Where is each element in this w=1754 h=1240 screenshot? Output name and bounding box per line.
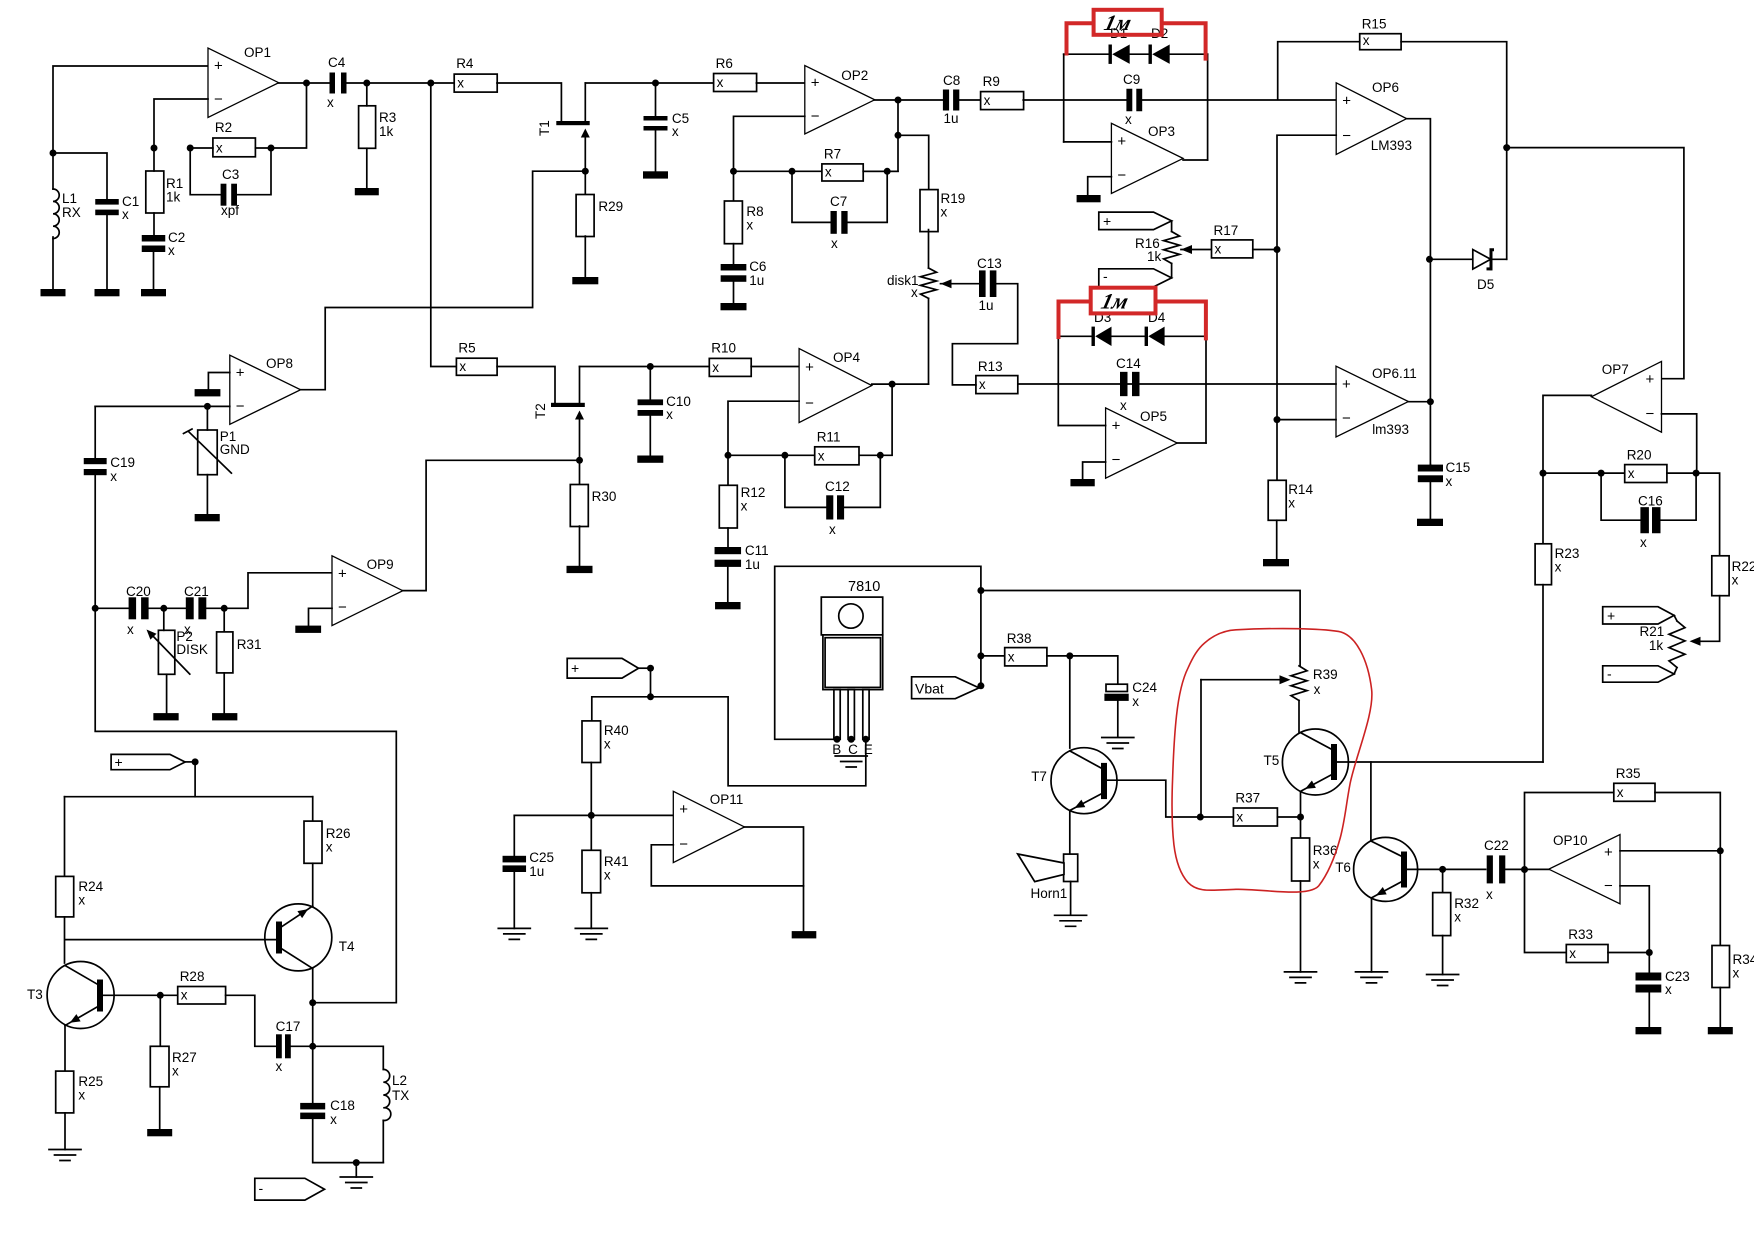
resistor R33 [1566, 927, 1608, 963]
wire [206, 573, 332, 609]
wire [1337, 761, 1543, 763]
svg-text:C16: C16 [1638, 494, 1663, 509]
wire [312, 797, 314, 821]
wire [1058, 335, 1091, 337]
op-amp OP4 [799, 349, 872, 423]
resistor R23 [1535, 544, 1579, 585]
wire [1300, 817, 1302, 838]
wire [159, 1087, 161, 1129]
resistor R36 [1292, 838, 1338, 881]
wire [1200, 816, 1233, 818]
wire [792, 171, 831, 222]
capacitor C23 [1636, 969, 1690, 997]
svg-text:x: x [327, 95, 334, 110]
resistor R7 [822, 147, 863, 182]
potentiometer P2 [147, 629, 208, 674]
svg-text:−: − [1342, 410, 1351, 427]
svg-text:x: x [979, 377, 986, 392]
wire [1370, 762, 1372, 841]
svg-text:OP8: OP8 [266, 356, 293, 371]
capacitor C20 [126, 584, 151, 637]
capacitor C1 [95, 194, 139, 222]
junction [1598, 470, 1605, 477]
resistor R34 [1712, 946, 1754, 988]
wire [1442, 936, 1444, 975]
wire [1694, 596, 1720, 642]
svg-text:GND: GND [220, 442, 250, 457]
svg-text:x: x [741, 499, 748, 514]
wire [64, 1026, 66, 1072]
svg-text:1u: 1u [944, 111, 959, 126]
transistor T5 [1264, 729, 1349, 795]
ground [1263, 559, 1289, 566]
op-amp OP11 [673, 791, 744, 862]
junction [363, 80, 370, 87]
wire [53, 66, 208, 153]
diode D4 [1145, 310, 1166, 346]
flag + (supply, TX stage) [111, 754, 185, 769]
junction [582, 168, 589, 175]
svg-text:C4: C4 [328, 55, 346, 70]
svg-text:+: + [1112, 417, 1121, 434]
junction [862, 736, 869, 743]
resistor R35 [1614, 766, 1655, 801]
resistor R14 [1268, 480, 1313, 520]
op-amp OP9 [332, 556, 403, 626]
wire [728, 454, 815, 456]
capacitor C3 [221, 167, 240, 218]
wire [1165, 335, 1206, 337]
capacitor C24 (polarized) [1104, 680, 1157, 709]
resistor R19 [920, 190, 965, 232]
resistor R26 [304, 821, 351, 863]
svg-text:OP10: OP10 [1553, 833, 1588, 848]
svg-text:+: + [214, 57, 223, 74]
svg-text:x: x [459, 359, 466, 374]
svg-text:1k: 1k [1147, 249, 1162, 264]
svg-text:x: x [1008, 649, 1015, 664]
resistor R41 [582, 850, 629, 893]
capacitor C22 [1484, 838, 1509, 902]
resistor R20 [1625, 448, 1667, 483]
wire [941, 283, 980, 285]
junction [781, 452, 788, 459]
op-amp OP7 [1591, 361, 1661, 432]
svg-text:C9: C9 [1123, 72, 1140, 87]
svg-text:x: x [1125, 112, 1132, 127]
wire [1505, 868, 1549, 870]
svg-text:T3: T3 [27, 987, 43, 1002]
red annotation circle around T5 stage [1172, 629, 1372, 893]
wire [585, 82, 713, 84]
capacitor C15 [1418, 460, 1470, 489]
svg-text:1k: 1k [166, 190, 181, 205]
svg-text:R17: R17 [1214, 223, 1239, 238]
svg-text:x: x [825, 165, 832, 180]
wire [928, 298, 930, 384]
wire [872, 383, 929, 385]
speaker Horn1 [1018, 854, 1078, 901]
ground [567, 566, 593, 573]
potentiometer R16 [1135, 221, 1180, 278]
junction [50, 150, 57, 157]
resistor R29 [576, 195, 623, 237]
wire [1696, 473, 1720, 556]
wire [1608, 952, 1649, 954]
wire [1207, 54, 1209, 160]
wire [981, 655, 1005, 657]
wire [206, 475, 208, 514]
wire [312, 1003, 314, 1103]
svg-text:C11: C11 [745, 543, 769, 558]
wire [185, 761, 195, 763]
wire [291, 1045, 313, 1047]
svg-text:x: x [1555, 560, 1562, 575]
capacitor C13 [977, 256, 1002, 313]
resistor R28 [178, 969, 226, 1004]
resistor R40 [582, 721, 629, 763]
R39 wiper arrow [1280, 675, 1291, 684]
wire [651, 827, 803, 886]
wire [1142, 99, 1336, 101]
wire [1443, 868, 1486, 870]
wire [579, 460, 581, 484]
junction [1274, 416, 1281, 423]
resistor R3 [359, 106, 397, 149]
svg-text:−: − [214, 91, 223, 108]
wire [590, 815, 592, 850]
junction [353, 1159, 360, 1166]
wire [1507, 148, 1684, 379]
svg-text:x: x [1314, 682, 1321, 697]
wire [255, 83, 306, 148]
junction [789, 168, 796, 175]
op-amp OP5 [1106, 408, 1178, 478]
ground [49, 1150, 81, 1161]
svg-text:x: x [78, 893, 85, 908]
transistor T2 (trimmer symbol) [533, 403, 585, 419]
wire [579, 420, 581, 461]
ground [643, 171, 668, 178]
svg-text:x: x [831, 236, 838, 251]
svg-text:−: − [679, 836, 688, 853]
svg-text:x: x [1132, 694, 1139, 709]
wire [775, 566, 981, 739]
wire [1442, 869, 1444, 892]
junction [647, 665, 654, 672]
junction [1521, 866, 1528, 873]
wire [154, 99, 208, 148]
diode D1 [1109, 26, 1130, 64]
junction [303, 80, 310, 87]
svg-text:−: − [338, 599, 347, 616]
svg-text:x: x [457, 76, 464, 91]
svg-text:RX: RX [62, 205, 81, 220]
svg-text:R3: R3 [379, 110, 396, 125]
svg-text:x: x [276, 1059, 283, 1074]
svg-text:OP6.11: OP6.11 [1372, 366, 1417, 381]
svg-text:+: + [811, 75, 820, 92]
wire [312, 863, 314, 906]
wire [301, 171, 586, 390]
wire [95, 607, 128, 609]
junction [895, 97, 902, 104]
diode D5 (zener) [1430, 248, 1506, 292]
svg-text:R37: R37 [1235, 791, 1260, 806]
svg-text:C18: C18 [330, 1098, 355, 1113]
wire [1401, 42, 1507, 260]
wire [382, 1120, 384, 1162]
capacitor C8 [943, 73, 960, 126]
wire [1177, 442, 1206, 444]
wire [1407, 868, 1443, 870]
diode D2 [1149, 26, 1170, 64]
svg-text:+: + [236, 364, 245, 381]
svg-text:R11: R11 [817, 430, 841, 445]
svg-text:+: + [1646, 371, 1655, 388]
ground [340, 1177, 372, 1188]
ground [95, 289, 120, 296]
junction [1717, 847, 1724, 854]
wire [590, 893, 592, 929]
svg-text:x: x [181, 988, 188, 1003]
svg-text:R13: R13 [978, 359, 1003, 374]
resistor R30 [570, 485, 616, 527]
wire [1023, 99, 1126, 101]
svg-text:1k: 1k [379, 124, 394, 139]
ground [637, 456, 663, 463]
svg-text:x: x [1569, 946, 1576, 961]
transistor T3 [27, 962, 114, 1029]
svg-text:1u: 1u [529, 864, 544, 879]
junction [725, 452, 732, 459]
junction [647, 693, 654, 700]
wire [1130, 53, 1148, 55]
svg-text:x: x [1733, 966, 1740, 981]
svg-text:OP5: OP5 [1140, 409, 1167, 424]
svg-text:C3: C3 [222, 167, 239, 182]
svg-text:+: + [571, 660, 579, 676]
resistor R15 [1360, 17, 1401, 50]
svg-text:T6: T6 [1335, 860, 1351, 875]
svg-text:+: + [805, 359, 814, 376]
capacitor C18 [300, 1098, 355, 1127]
resistor R12 [719, 485, 765, 528]
wire [1620, 850, 1720, 852]
diode D3 [1092, 310, 1112, 346]
junction [1274, 246, 1281, 253]
wire [584, 236, 586, 277]
junction [309, 999, 316, 1006]
ground [212, 713, 237, 720]
svg-text:x: x [818, 448, 825, 463]
wire [65, 939, 276, 941]
capacitor C7 [830, 194, 848, 251]
wire [1070, 656, 1118, 684]
svg-text:x: x [1732, 573, 1739, 588]
junction [848, 736, 855, 743]
wire [1070, 882, 1072, 914]
svg-text:x: x [941, 205, 948, 220]
ground [1070, 479, 1094, 486]
wire [1278, 42, 1360, 100]
wire [106, 214, 108, 289]
capacitor C25 [503, 850, 555, 879]
resistor R31 [217, 632, 262, 673]
ground [835, 756, 867, 767]
transistor T1 (trimmer symbol) [537, 120, 590, 136]
junction [977, 652, 984, 659]
wire [875, 99, 943, 101]
resistor R38 [1005, 631, 1047, 666]
svg-text:DISK: DISK [176, 642, 208, 657]
op-amp OP2 [805, 66, 875, 134]
svg-text:C22: C22 [1484, 838, 1509, 853]
svg-text:x: x [911, 285, 918, 300]
svg-text:OP6: OP6 [1372, 80, 1399, 95]
wire [1058, 425, 1105, 427]
junction [157, 992, 164, 999]
svg-text:1u: 1u [979, 298, 994, 313]
svg-text:1k: 1k [1649, 638, 1664, 653]
resistor R32 [1433, 893, 1479, 936]
svg-text:x: x [712, 360, 719, 375]
resistor R27 [150, 1046, 196, 1087]
junction [1693, 470, 1700, 477]
svg-text:+: + [679, 801, 688, 818]
wire [733, 171, 735, 201]
ground [575, 928, 607, 939]
wire [279, 82, 330, 84]
junction [187, 145, 194, 152]
ground [1102, 738, 1134, 749]
wire [64, 1113, 66, 1150]
wire [1277, 135, 1336, 480]
svg-text:C13: C13 [977, 256, 1002, 271]
wire [223, 608, 225, 632]
wire [844, 455, 880, 507]
svg-text:OP2: OP2 [841, 68, 868, 83]
svg-text:R35: R35 [1616, 766, 1641, 781]
svg-text:C24: C24 [1132, 680, 1157, 695]
resistor R9 [981, 74, 1024, 110]
resistor R13 [976, 359, 1018, 394]
wire [590, 763, 592, 816]
svg-text:T1: T1 [537, 120, 552, 136]
voltage regulator 7810 [821, 579, 882, 757]
svg-text:xpf: xpf [221, 203, 239, 218]
svg-text:−: − [811, 108, 820, 125]
wire [64, 797, 66, 877]
wire [1181, 249, 1212, 251]
svg-text:+: + [1607, 608, 1615, 624]
wire [1047, 655, 1070, 657]
svg-text:T5: T5 [1264, 753, 1280, 768]
wire [149, 607, 186, 609]
flag Vbat [912, 677, 979, 699]
svg-text:x: x [110, 469, 117, 484]
svg-text:R5: R5 [458, 341, 475, 356]
svg-text:x: x [1665, 982, 1672, 997]
wire [898, 135, 929, 189]
svg-text:−: − [1646, 406, 1655, 423]
svg-text:C: C [848, 742, 858, 757]
svg-text:x: x [1236, 810, 1243, 825]
wire [153, 148, 155, 171]
wire [514, 814, 673, 816]
potentiometer disk1 [887, 230, 937, 300]
svg-text:L2: L2 [392, 1073, 407, 1088]
wire [1525, 870, 1567, 953]
capacitor C17 [276, 1019, 301, 1074]
wire [1298, 701, 1300, 733]
wire [1064, 53, 1109, 55]
svg-text:LM393: LM393 [1371, 138, 1412, 153]
wire [1601, 473, 1640, 520]
capacitor C9 [1123, 72, 1142, 127]
wire [1662, 414, 1697, 473]
svg-text:−: − [1117, 167, 1126, 184]
junction [884, 168, 891, 175]
op-amp OP10 [1549, 833, 1620, 904]
wire [1069, 811, 1071, 855]
potentiometer P1 [184, 429, 250, 475]
junction [652, 80, 659, 87]
wire [655, 131, 657, 172]
junction [889, 381, 896, 388]
resistor R4 [454, 56, 497, 92]
wire [190, 148, 220, 195]
ground [498, 928, 530, 939]
capacitor C5 [644, 111, 690, 139]
wire [163, 608, 165, 630]
wire [95, 405, 230, 407]
svg-text:C8: C8 [943, 73, 960, 88]
svg-text:+: + [1604, 844, 1613, 861]
wire [1719, 988, 1721, 1028]
wire [848, 171, 887, 222]
ground [1356, 972, 1388, 983]
wire [733, 282, 735, 303]
svg-text:C21: C21 [184, 584, 209, 599]
svg-text:x: x [1363, 33, 1370, 48]
resistor R5 [456, 341, 497, 376]
svg-text:x: x [330, 1112, 337, 1127]
wire [928, 230, 930, 268]
wire [733, 244, 735, 264]
junction [1646, 949, 1653, 956]
wire [727, 455, 729, 485]
svg-text:x: x [172, 1064, 179, 1079]
svg-text:OP1: OP1 [244, 45, 271, 60]
wire [803, 886, 805, 931]
ground [1708, 1027, 1733, 1034]
svg-text:R38: R38 [1007, 631, 1032, 646]
wire [1719, 851, 1721, 946]
svg-text:R28: R28 [180, 969, 205, 984]
resistor R11 [815, 430, 859, 465]
svg-text:L1: L1 [62, 191, 77, 206]
svg-text:x: x [326, 840, 333, 855]
svg-text:OP7: OP7 [1602, 362, 1629, 377]
wire [1277, 419, 1336, 421]
ground [1055, 915, 1087, 926]
capacitor C11 [715, 543, 769, 572]
svg-text:C15: C15 [1446, 460, 1471, 475]
wire [756, 82, 804, 84]
svg-text:x: x [984, 93, 991, 108]
svg-text:1u: 1u [749, 273, 764, 288]
